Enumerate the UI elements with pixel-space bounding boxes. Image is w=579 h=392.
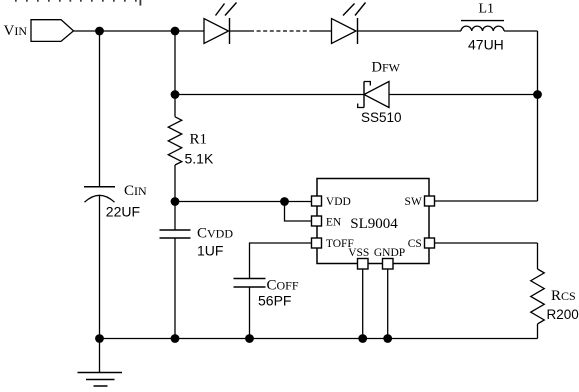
svg-text:CS: CS (408, 238, 422, 250)
svg-text:DFW: DFW (372, 59, 401, 75)
resistor RCS (531, 269, 545, 324)
junction: GNDP at rail (383, 334, 392, 343)
wire: SW pin to rail (435, 200, 538, 202)
wire: CS down to RCS (537, 243, 539, 269)
svg-text:1UF: 1UF (197, 243, 223, 259)
svg-text:GNDP: GNDP (374, 247, 405, 259)
svg-text:SS510: SS510 (361, 110, 402, 125)
svg-text:5.1K: 5.1K (185, 151, 214, 167)
inductor L1 (461, 21, 504, 31)
wire: VDD net (175, 201, 312, 203)
ground symbol (78, 373, 123, 387)
svg-text:EN: EN (326, 217, 342, 229)
wire: COFF to ground rail (249, 287, 251, 339)
svg-text:R200: R200 (547, 307, 579, 322)
pin VSS (358, 259, 369, 270)
junction: top branch node (171, 27, 180, 36)
wire: TOFF to COFF (250, 243, 312, 279)
svg-text:R1: R1 (190, 132, 208, 148)
wire: CIN to ground rail (99, 195, 101, 338)
svg-text:L1: L1 (479, 2, 495, 17)
wire: right rail down to SW (537, 31, 539, 201)
wire: ground rail (100, 338, 538, 340)
junction: R1 branch at DFW (171, 90, 180, 99)
svg-text:CIN: CIN (124, 183, 147, 199)
pin CS (425, 238, 435, 248)
LED D2 (332, 3, 366, 45)
wire: VSS drop (362, 269, 364, 339)
wire: dashed link D1 to D2 (250, 30, 310, 32)
capacitor CIN (84, 187, 115, 203)
junction: VSS at rail (358, 334, 367, 343)
svg-text:47UH: 47UH (468, 37, 504, 53)
wire: L1 to right rail (504, 30, 538, 32)
LED D1 (204, 3, 237, 45)
junction: EN branch (280, 197, 289, 206)
svg-text:CVDD: CVDD (197, 226, 233, 242)
wire: top node down to DFW junction (174, 31, 176, 95)
cropped caption text fragment along top edge (15, 0, 141, 6)
wire: GNDP drop (387, 269, 389, 339)
wire: DFW junction down to R1 (174, 95, 176, 117)
capacitor COFF (234, 279, 266, 288)
junction: CVDD at rail (171, 334, 180, 343)
pin SW (425, 196, 435, 206)
wire: RCS to ground rail (537, 324, 539, 339)
wire: left vertical VIN node to CIN (99, 31, 101, 187)
junction: COFF at rail (245, 334, 254, 343)
wire: D2 to L1 (358, 30, 462, 32)
svg-text:VIN: VIN (4, 23, 28, 39)
pin TOFF (312, 238, 322, 248)
IC U1 SL9004 (312, 179, 435, 270)
wire: D1 cathode stub (230, 30, 251, 32)
wire: R1 to CVDD (174, 165, 176, 230)
junction: rail left / ground (95, 334, 104, 343)
pin GNDP (383, 259, 394, 270)
svg-text:22UF: 22UF (106, 203, 140, 219)
diode DFW (Schottky SS510) (358, 82, 389, 108)
svg-text:SL9004: SL9004 (350, 216, 398, 232)
wire: DFW anode to rail (389, 94, 538, 96)
svg-text:56PF: 56PF (258, 293, 291, 309)
wire: ground stub (99, 339, 101, 373)
svg-text:SW: SW (405, 196, 422, 208)
wire: VIN to LED D1 (74, 30, 205, 32)
svg-text:RCS: RCS (551, 288, 576, 304)
pin EN (312, 216, 322, 226)
junction: VDD node (171, 197, 180, 206)
pin VDD (312, 196, 322, 206)
svg-text:VDD: VDD (326, 196, 351, 208)
wire: EN branch (285, 202, 312, 222)
wire: CVDD to ground rail (174, 238, 176, 339)
junction: rail and DFW (533, 90, 542, 99)
junction: VIN node (95, 27, 104, 36)
wire: DFW cathode to R1 branch (175, 94, 364, 96)
resistor R1 (168, 117, 182, 165)
svg-text:COFF: COFF (267, 278, 299, 294)
VIN input connector (31, 20, 74, 42)
svg-text:VSS: VSS (348, 247, 369, 259)
wire: CS net (435, 242, 538, 244)
wire: into D2 (310, 30, 332, 32)
capacitor CVDD (160, 230, 191, 238)
